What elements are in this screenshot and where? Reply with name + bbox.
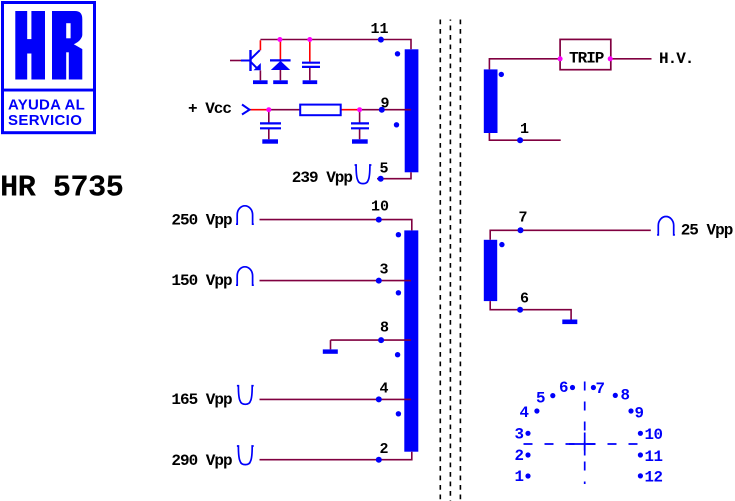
- svg-text:6: 6: [520, 291, 529, 308]
- svg-text:9: 9: [380, 96, 389, 113]
- svg-text:H.V.: H.V.: [659, 50, 693, 68]
- svg-text:7: 7: [518, 210, 527, 227]
- svg-text:2: 2: [515, 447, 524, 465]
- svg-text:165 Vpp: 165 Vpp: [171, 391, 232, 409]
- svg-text:HR 5735: HR 5735: [0, 171, 123, 205]
- svg-text:250 Vpp: 250 Vpp: [171, 212, 232, 230]
- svg-text:6: 6: [559, 379, 568, 397]
- svg-text:1: 1: [520, 121, 529, 138]
- svg-text:290 Vpp: 290 Vpp: [171, 452, 232, 470]
- svg-text:8: 8: [621, 386, 630, 404]
- svg-text:10: 10: [645, 426, 663, 444]
- svg-text:3: 3: [379, 262, 388, 279]
- svg-text:11: 11: [370, 21, 388, 38]
- svg-text:+ Vcc: + Vcc: [188, 100, 231, 118]
- svg-text:5: 5: [379, 161, 388, 178]
- svg-text:25 Vpp: 25 Vpp: [681, 222, 733, 240]
- svg-text:11: 11: [645, 448, 663, 466]
- svg-text:12: 12: [645, 469, 663, 487]
- svg-text:3: 3: [515, 426, 524, 444]
- svg-text:1: 1: [515, 468, 524, 486]
- svg-text:9: 9: [635, 405, 644, 423]
- svg-text:10: 10: [371, 199, 389, 216]
- svg-text:5: 5: [536, 390, 545, 408]
- svg-text:2: 2: [379, 441, 388, 458]
- svg-text:4: 4: [520, 404, 530, 422]
- svg-text:150 Vpp: 150 Vpp: [171, 272, 232, 290]
- svg-text:SERVICIO: SERVICIO: [8, 112, 82, 129]
- svg-text:AYUDA AL: AYUDA AL: [8, 96, 85, 113]
- svg-text:4: 4: [379, 381, 388, 398]
- svg-text:TRIP: TRIP: [569, 50, 604, 68]
- svg-text:239 Vpp: 239 Vpp: [292, 169, 353, 187]
- svg-text:7: 7: [596, 380, 605, 398]
- svg-text:8: 8: [380, 319, 389, 336]
